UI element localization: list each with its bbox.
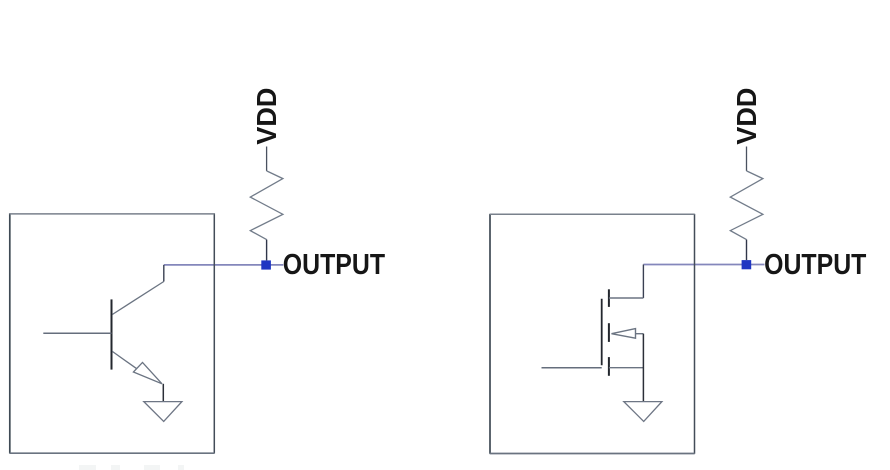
- svg-text:VDD: VDD: [251, 88, 282, 145]
- wire gate lead (right): [542, 367, 602, 369]
- IC boundary box (left): [10, 213, 215, 453]
- label OUTPUT (right): [764, 248, 867, 280]
- wire OUTPUT net (right): [643, 264, 764, 266]
- ground (right): [624, 402, 662, 422]
- svg-text:VDD: VDD: [731, 88, 762, 145]
- label OUTPUT (left): [283, 248, 386, 280]
- label VDD (right): [731, 88, 762, 145]
- wire VDD lead (right): [746, 147, 748, 171]
- cropped caption remnants at bottom edge: [79, 465, 184, 470]
- resistor R1: [250, 171, 283, 240]
- ground (left): [144, 402, 182, 422]
- transistor Q2 (NMOS): [602, 289, 644, 376]
- wire base lead (left): [43, 332, 111, 334]
- wire resistor R2 to node (right): [746, 240, 748, 261]
- node OUTPUT (right): [742, 260, 752, 269]
- svg-text:OUTPUT: OUTPUT: [283, 248, 386, 280]
- node OUTPUT (left): [261, 260, 271, 269]
- IC boundary box (right): [490, 214, 695, 454]
- svg-text:OUTPUT: OUTPUT: [764, 248, 867, 280]
- wire VDD lead (left): [266, 147, 268, 171]
- wire collector lead (left): [163, 265, 165, 282]
- wire emitter to ground (left): [162, 384, 164, 402]
- wire resistor R1 to node (left): [266, 240, 268, 261]
- wire drain lead vertical (right): [642, 265, 644, 299]
- wire OUTPUT net (left): [164, 264, 283, 266]
- wire source to ground (right): [642, 334, 644, 402]
- resistor R2: [730, 171, 763, 240]
- transistor Q1 (NPN): [112, 282, 164, 384]
- label VDD (left): [251, 88, 282, 145]
